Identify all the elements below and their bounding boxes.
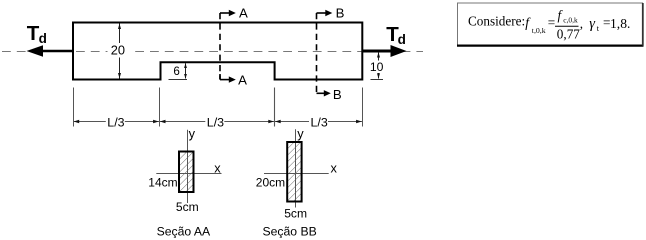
dimension 10 bbox=[371, 79, 384, 81]
svg-text:10: 10 bbox=[370, 60, 384, 74]
section AA: hatched rectangle bbox=[179, 152, 194, 193]
svg-text:L/3: L/3 bbox=[107, 115, 124, 129]
svg-text:x: x bbox=[331, 161, 338, 176]
svg-text:d: d bbox=[398, 32, 406, 47]
dimension 6 bbox=[169, 79, 188, 81]
section line B-B bbox=[316, 13, 318, 93]
svg-text:B: B bbox=[333, 87, 342, 102]
svg-text:20: 20 bbox=[111, 42, 125, 57]
force arrow left (Td) bbox=[42, 50, 73, 53]
svg-text:B: B bbox=[336, 5, 345, 20]
svg-text:14cm: 14cm bbox=[148, 176, 177, 190]
svg-text:,: , bbox=[580, 16, 583, 31]
svg-text:A: A bbox=[239, 5, 248, 20]
beam outline bbox=[73, 23, 362, 80]
svg-text:A: A bbox=[238, 72, 247, 87]
svg-text:L/3: L/3 bbox=[207, 115, 224, 129]
svg-text:c,0,k: c,0,k bbox=[563, 16, 578, 25]
svg-text:.: . bbox=[627, 16, 630, 31]
svg-text:0,77: 0,77 bbox=[557, 26, 580, 41]
section AA: x axis bbox=[156, 173, 221, 175]
svg-text:Considere:: Considere: bbox=[468, 14, 525, 29]
svg-text:y: y bbox=[189, 126, 196, 141]
force arrow right (Td) bbox=[362, 50, 392, 53]
svg-text:Seção AA: Seção AA bbox=[157, 224, 211, 238]
centerline bbox=[2, 51, 423, 53]
svg-text:=: = bbox=[548, 15, 555, 30]
svg-text:Seção BB: Seção BB bbox=[263, 224, 317, 238]
svg-text:y: y bbox=[297, 126, 304, 141]
svg-text:x: x bbox=[214, 160, 221, 175]
fraction bar bbox=[555, 25, 579, 27]
svg-text:5cm: 5cm bbox=[176, 200, 199, 214]
dimension 20 bbox=[119, 24, 121, 79]
section line A-A bbox=[219, 13, 221, 80]
considere box frame bbox=[458, 3, 643, 45]
svg-text:L/3: L/3 bbox=[311, 115, 328, 129]
svg-text:d: d bbox=[39, 31, 47, 46]
svg-text:t,0,k: t,0,k bbox=[532, 26, 546, 35]
L/3 dimension chain bbox=[73, 88, 75, 127]
section AA: y axis bbox=[187, 130, 189, 203]
svg-text:1,8: 1,8 bbox=[610, 16, 627, 31]
svg-text:6: 6 bbox=[173, 65, 179, 78]
section BB: hatched rectangle bbox=[287, 142, 301, 202]
svg-text:20cm: 20cm bbox=[256, 176, 285, 190]
section BB: x axis bbox=[264, 173, 329, 175]
section BB: y axis bbox=[295, 129, 297, 207]
svg-text:5cm: 5cm bbox=[284, 207, 307, 221]
